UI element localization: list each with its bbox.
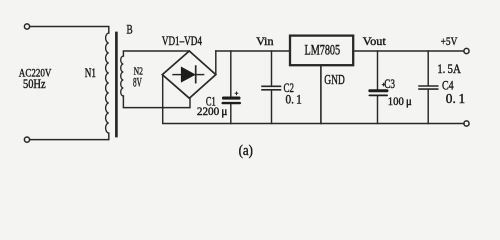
svg-text:GND: GND	[324, 73, 345, 88]
svg-text:1. 5A: 1. 5A	[437, 61, 461, 76]
svg-text:N1: N1	[85, 65, 96, 80]
svg-text:Vin: Vin	[256, 34, 273, 48]
svg-text:VD1–VD4: VD1–VD4	[162, 34, 203, 48]
svg-text:B: B	[127, 21, 133, 36]
svg-text:50Hz: 50Hz	[23, 77, 46, 91]
svg-text:8V: 8V	[133, 74, 142, 89]
svg-text:+5V: +5V	[441, 34, 458, 48]
svg-text:(a): (a)	[239, 143, 253, 159]
svg-text:100 μ: 100 μ	[388, 96, 412, 108]
svg-text:LM7805: LM7805	[305, 42, 341, 58]
svg-text:0. 1: 0. 1	[286, 91, 302, 106]
svg-text:0. 1: 0. 1	[446, 91, 465, 106]
svg-text:2200 μ: 2200 μ	[197, 106, 228, 118]
svg-text:Vout: Vout	[363, 34, 387, 48]
svg-text:C3: C3	[384, 76, 395, 91]
